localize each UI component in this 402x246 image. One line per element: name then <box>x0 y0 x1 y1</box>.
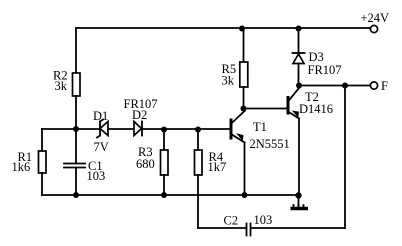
transistor T2 D1416 <box>288 88 299 196</box>
node junction bottom rail ground <box>295 192 301 198</box>
wire left leg lower <box>41 173 43 195</box>
svg-text:3k: 3k <box>55 79 68 93</box>
node junction middle rail C1 <box>73 126 79 132</box>
svg-text:103: 103 <box>87 169 106 183</box>
node junction bottom rail C1 <box>73 192 79 198</box>
resistor R5 <box>240 28 248 109</box>
wire middle rail D1-D2 <box>108 128 134 130</box>
node junction bottom rail R3 <box>161 192 167 198</box>
transistor T1 2N5551 <box>231 109 245 196</box>
wire left leg upper <box>41 129 43 151</box>
svg-text:C2: C2 <box>224 214 239 228</box>
svg-text:T1: T1 <box>253 120 267 134</box>
svg-text:1k7: 1k7 <box>208 160 227 174</box>
diode D3 FR107 <box>293 28 305 86</box>
wire T2 base <box>244 108 288 110</box>
svg-text:3k: 3k <box>222 74 235 88</box>
resistor R1 <box>39 151 47 173</box>
node junction bottom rail T1 emitter <box>242 192 248 198</box>
node junction T1 collector / T2 base <box>241 106 247 112</box>
diode D1 (zener 7V) <box>97 120 108 138</box>
diode D2 <box>134 122 142 136</box>
svg-text:7V: 7V <box>94 140 109 154</box>
wire left trunk upper <box>75 28 77 74</box>
wire left trunk lower <box>75 96 77 129</box>
wire top rail <box>76 27 371 29</box>
svg-text:1k6: 1k6 <box>12 160 31 174</box>
resistor R4 <box>195 129 203 228</box>
svg-text:F: F <box>381 79 388 93</box>
capacitor C2 <box>247 224 251 236</box>
wire output F <box>299 85 371 87</box>
svg-text:D1416: D1416 <box>299 102 333 116</box>
node junction top rail D3 <box>296 26 302 32</box>
terminal F <box>370 82 377 89</box>
ground <box>291 196 309 209</box>
svg-text:FR107: FR107 <box>308 63 342 77</box>
wire feedback bottom right <box>251 227 345 229</box>
node junction output / feedback <box>342 83 348 89</box>
svg-text:FR107: FR107 <box>124 97 158 111</box>
wire feedback bottom left <box>198 227 246 229</box>
node junction T2 collector / output <box>296 83 302 89</box>
node junction middle rail R3 <box>161 127 167 133</box>
svg-text:D3: D3 <box>309 50 324 64</box>
svg-text:2N5551: 2N5551 <box>250 137 290 151</box>
svg-text:103: 103 <box>254 213 273 227</box>
capacitor C1 <box>64 129 85 195</box>
node junction top rail R5 <box>239 26 245 32</box>
svg-text:680: 680 <box>136 157 155 171</box>
terminal +24V <box>370 25 377 32</box>
wire bottom rail <box>42 194 299 196</box>
resistor R3 <box>161 129 169 195</box>
svg-text:D1: D1 <box>93 109 108 123</box>
node junction middle rail R4 <box>195 127 201 133</box>
wire middle rail right <box>142 128 230 130</box>
wire feedback right vertical <box>344 86 346 229</box>
wire middle rail left <box>42 128 100 130</box>
svg-text:+24V: +24V <box>361 11 390 25</box>
resistor R2 <box>73 73 81 96</box>
